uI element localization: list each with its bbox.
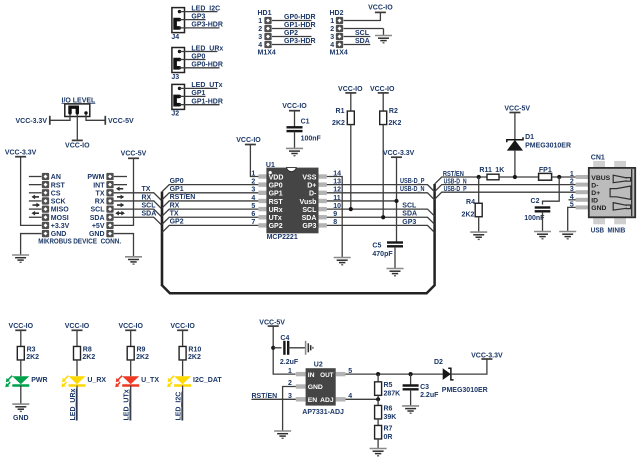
svg-text:SCL: SCL xyxy=(355,30,370,37)
svg-text:SDA: SDA xyxy=(142,211,157,218)
DEVICE CONN pin PWM xyxy=(114,176,127,178)
svg-text:R2: R2 xyxy=(389,108,398,115)
svg-text:GND: GND xyxy=(308,384,323,391)
power VCC-3.3V after D2 xyxy=(481,358,492,360)
wire SDA from U1 xyxy=(327,217,435,224)
svg-text:VCC-3.3V: VCC-3.3V xyxy=(5,149,37,156)
wire R11 to FP1 xyxy=(499,176,539,178)
LED I2C_DAT xyxy=(167,376,191,388)
wire U_RX LED down xyxy=(76,386,78,421)
arrow TX xyxy=(117,195,124,200)
svg-text:TX: TX xyxy=(96,190,105,197)
wire TX bus to U1 pin 6 xyxy=(162,217,258,224)
svg-text:VCC-3.3V: VCC-3.3V xyxy=(471,353,503,360)
wire R10 top xyxy=(182,330,184,346)
CN1 ID stub xyxy=(569,199,576,201)
svg-text:J3: J3 xyxy=(171,74,179,81)
svg-text:D-: D- xyxy=(591,182,598,189)
svg-text:D+: D+ xyxy=(307,182,316,189)
svg-text:+5V: +5V xyxy=(92,223,105,230)
wire Vusb xyxy=(327,200,397,202)
wire RST/EN from bus to R11 xyxy=(435,177,487,184)
svg-text:VSS: VSS xyxy=(302,174,316,181)
resistor R10 xyxy=(179,346,186,360)
wire SCL from U1 xyxy=(327,209,435,216)
svg-text:R6: R6 xyxy=(384,406,393,413)
svg-text:R9: R9 xyxy=(137,346,146,353)
resistor R5 xyxy=(377,374,379,382)
power VCC-IO at HD2 xyxy=(375,11,386,13)
DEVICE CONN pin +5V xyxy=(106,222,113,229)
svg-text:AP7331-ADJ: AP7331-ADJ xyxy=(302,409,344,416)
svg-text:GP3: GP3 xyxy=(402,219,416,226)
wire U2 OUT xyxy=(346,373,443,375)
svg-text:2K2: 2K2 xyxy=(462,212,475,219)
svg-text:RST/EN: RST/EN xyxy=(443,171,464,178)
power terminal VCC-3.3V left xyxy=(49,116,51,125)
DEVICE CONN pin RX xyxy=(106,197,113,204)
wire R10 to LED xyxy=(182,360,184,376)
svg-text:RST/EN: RST/EN xyxy=(252,393,278,400)
wire VCC-3.3V down to Vusb and C5 xyxy=(396,157,398,241)
wire GP0 xyxy=(180,59,206,61)
svg-text:4: 4 xyxy=(258,42,262,49)
svg-text:VCC-IO: VCC-IO xyxy=(282,103,307,110)
wire VCC-IO to U1 VDD xyxy=(250,145,258,177)
svg-text:TX: TX xyxy=(142,186,151,193)
svg-text:2: 2 xyxy=(258,26,262,33)
wire device conn GND xyxy=(114,234,134,257)
junction C4 xyxy=(271,346,275,350)
capacitor C3 xyxy=(410,374,412,385)
wire PWR LED to ground xyxy=(20,386,22,405)
svg-text:2K2: 2K2 xyxy=(389,120,402,127)
wire USB-D_N from U1 D- xyxy=(327,193,435,200)
ground below C1 xyxy=(286,148,303,155)
wire GP1 xyxy=(180,95,206,97)
power VCC-IO below I/O LEVEL xyxy=(72,139,83,141)
svg-text:D+: D+ xyxy=(591,190,600,197)
svg-text:R1: R1 xyxy=(336,108,345,115)
svg-text:VCC-IO: VCC-IO xyxy=(236,137,261,144)
wire USB-D_N bus to CN1 D- xyxy=(435,185,576,192)
MIKROBUS pin MISO xyxy=(29,208,42,210)
svg-text:R8: R8 xyxy=(83,346,92,353)
rotated ground at C4 xyxy=(306,341,313,355)
svg-text:3: 3 xyxy=(258,34,262,41)
wire R9 to LED xyxy=(130,360,132,376)
MIKROBUS pin CS xyxy=(29,192,42,194)
power terminal VCC-5V right xyxy=(104,116,106,125)
svg-text:USB-D_P: USB-D_P xyxy=(400,178,425,185)
svg-text:C1: C1 xyxy=(301,119,310,126)
svg-text:1K: 1K xyxy=(495,167,504,174)
svg-text:RST/EN: RST/EN xyxy=(170,194,196,201)
svg-text:LED_URx: LED_URx xyxy=(191,45,223,52)
svg-text:VCC-5V: VCC-5V xyxy=(121,151,147,158)
wire C2 to ground xyxy=(542,212,544,232)
svg-text:3: 3 xyxy=(330,34,334,41)
svg-text:5: 5 xyxy=(251,203,255,210)
svg-text:4: 4 xyxy=(330,42,334,49)
wire C5 to ground xyxy=(394,247,396,269)
svg-text:RX: RX xyxy=(170,202,180,209)
svg-text:2: 2 xyxy=(330,26,334,33)
wire GP0-HDR xyxy=(180,67,220,69)
ground at HD2 pin 2 xyxy=(375,36,392,43)
wire R3 top xyxy=(20,330,22,346)
junction R4 xyxy=(477,175,481,179)
svg-text:1: 1 xyxy=(258,18,262,25)
svg-text:2: 2 xyxy=(251,178,255,185)
svg-text:1: 1 xyxy=(570,171,574,178)
svg-text:USB MINIB: USB MINIB xyxy=(591,225,626,234)
svg-text:LED_URx: LED_URx xyxy=(70,388,77,420)
wire TX to bus xyxy=(114,193,162,201)
svg-text:U2: U2 xyxy=(314,362,323,369)
svg-text:GP3-HDR: GP3-HDR xyxy=(284,38,316,45)
bus trunk left vertical xyxy=(161,192,164,286)
arrow INT xyxy=(116,186,123,191)
capacitor C2 xyxy=(535,208,551,212)
DEVICE CONN pin SDA xyxy=(106,214,113,221)
wire I2C_DAT LED down xyxy=(182,386,184,421)
svg-text:SCL: SCL xyxy=(91,207,106,214)
svg-text:VCC-IO: VCC-IO xyxy=(65,142,90,149)
svg-text:C5: C5 xyxy=(372,243,381,250)
svg-text:VCC-IO: VCC-IO xyxy=(118,323,143,330)
svg-text:SDA: SDA xyxy=(355,38,370,45)
wire GP1 bus to U1 pin 3 xyxy=(162,193,258,200)
wire I/O LEVEL pin1 to VCC-3.3V xyxy=(50,114,70,120)
svg-text:R5: R5 xyxy=(384,382,393,389)
svg-text:FP1: FP1 xyxy=(539,167,552,174)
junction ADJ xyxy=(376,397,380,401)
svg-text:I2C_DAT: I2C_DAT xyxy=(193,377,222,384)
resistor R8 xyxy=(74,346,81,360)
svg-text:287K: 287K xyxy=(384,390,401,397)
svg-text:R4: R4 xyxy=(466,199,475,206)
LED U_RX xyxy=(62,376,86,388)
resistor R9 xyxy=(127,346,134,360)
wire D2 to VCC-3.3V xyxy=(451,359,487,374)
wire GP3 xyxy=(180,19,206,21)
svg-text:GP1-HDR: GP1-HDR xyxy=(191,99,223,106)
ground below U2 GND xyxy=(274,431,291,438)
svg-text:TX: TX xyxy=(170,210,179,217)
wire D1 to VBUS line xyxy=(514,151,516,177)
wire GP2 bus to U1 pin 7 xyxy=(162,225,258,232)
svg-text:HD1: HD1 xyxy=(258,10,272,17)
wire VCC-5V down to U2 IN xyxy=(273,326,295,374)
wire R2 to SDA xyxy=(382,125,384,218)
svg-text:DEVICE CONN.: DEVICE CONN. xyxy=(73,237,121,246)
MIKROBUS pin MOSI xyxy=(29,216,42,218)
svg-text:GP3-HDR: GP3-HDR xyxy=(191,22,223,29)
svg-text:RST: RST xyxy=(269,199,284,206)
wire U2 pin2 stub xyxy=(283,387,296,432)
diode D2 PMEG3010ER xyxy=(443,368,451,380)
junction Vusb xyxy=(394,199,398,203)
wire mikrobus GND xyxy=(21,234,42,255)
wire LED_I2C xyxy=(180,11,218,13)
jumper J2 body xyxy=(172,84,185,109)
wire R4 to ground xyxy=(478,217,480,232)
junction C2 xyxy=(557,175,561,179)
DEVICE CONN pin TX xyxy=(106,189,113,196)
wire VCC-3.3V to +3.3V pin xyxy=(21,157,42,226)
svg-text:2K2: 2K2 xyxy=(82,354,95,361)
svg-text:Vusb: Vusb xyxy=(300,199,317,206)
svg-text:SDA: SDA xyxy=(302,215,317,222)
wire R8 to LED xyxy=(76,360,78,376)
svg-text:GP1: GP1 xyxy=(191,90,205,97)
svg-text:PMEG3010ER: PMEG3010ER xyxy=(525,142,571,149)
svg-text:MIKROBUS: MIKROBUS xyxy=(38,237,72,246)
ground below mikrobus xyxy=(12,255,29,262)
wire U1 VSS to ground xyxy=(327,177,342,258)
arrow RX xyxy=(117,203,124,208)
wire GP1-HDR xyxy=(180,104,220,106)
svg-text:GP0-HDR: GP0-HDR xyxy=(191,62,223,69)
MIKROBUS pin GND xyxy=(42,230,49,237)
wire USB-D_P from U1 D+ xyxy=(327,185,435,192)
ferrite FP1 xyxy=(539,173,552,180)
ground below VSS xyxy=(334,258,351,265)
svg-text:3: 3 xyxy=(570,186,574,193)
ground below R7 xyxy=(370,449,387,456)
svg-text:GP1-HDR: GP1-HDR xyxy=(284,22,316,29)
svg-text:LED_UTx: LED_UTx xyxy=(124,389,131,420)
svg-text:VCC-IO: VCC-IO xyxy=(368,5,393,12)
svg-text:GP2: GP2 xyxy=(170,219,184,226)
svg-text:1: 1 xyxy=(288,368,292,375)
svg-text:INT: INT xyxy=(93,182,105,189)
capacitor C1 xyxy=(287,127,303,131)
svg-text:SCK: SCK xyxy=(51,199,66,206)
svg-text:2K2: 2K2 xyxy=(26,354,39,361)
resistor R1 xyxy=(350,93,352,111)
LED PWR xyxy=(5,376,29,388)
svg-text:VCC-3.3V: VCC-3.3V xyxy=(15,118,47,125)
svg-text:GP3: GP3 xyxy=(302,223,316,230)
svg-text:0R: 0R xyxy=(384,434,393,441)
junction C3 top xyxy=(409,372,413,376)
arrow SDA bidir xyxy=(115,211,125,216)
svg-text:SDA: SDA xyxy=(402,211,417,218)
svg-text:SDA: SDA xyxy=(90,215,105,222)
svg-text:2K2: 2K2 xyxy=(332,120,345,127)
resistor R11 1K xyxy=(487,174,499,180)
svg-text:100nF: 100nF xyxy=(301,136,322,143)
junction R5 top xyxy=(376,372,380,376)
svg-text:UTx: UTx xyxy=(269,215,282,222)
LED U_TX xyxy=(115,376,139,388)
wire C4 left xyxy=(273,347,281,349)
svg-text:GND: GND xyxy=(13,415,29,422)
ground below C3 xyxy=(402,406,419,413)
wire R1 to SCL xyxy=(350,125,352,210)
svg-text:LED_UTx: LED_UTx xyxy=(191,82,222,89)
ground below R4 xyxy=(470,232,487,239)
svg-text:2.2uF: 2.2uF xyxy=(420,392,439,399)
svg-text:2.2uF: 2.2uF xyxy=(280,359,299,366)
svg-text:ADJ: ADJ xyxy=(320,397,334,404)
svg-text:1: 1 xyxy=(330,18,334,25)
svg-text:VCC-IO: VCC-IO xyxy=(170,323,195,330)
svg-text:GP2: GP2 xyxy=(269,223,283,230)
MIKROBUS pin SCK xyxy=(29,200,42,202)
svg-text:GP1: GP1 xyxy=(170,186,184,193)
wire USB-D_P bus to CN1 D+ xyxy=(435,192,576,199)
jumper J4 body xyxy=(172,8,185,33)
ground below CN1 GND xyxy=(559,232,576,239)
wire FP1 to CN1 VBUS xyxy=(552,176,576,178)
resistor R6 xyxy=(377,399,379,405)
svg-text:SCL: SCL xyxy=(142,203,157,210)
svg-text:D-: D- xyxy=(309,191,317,198)
wire SDA to bus xyxy=(114,217,162,225)
capacitor C4 xyxy=(284,341,288,355)
svg-text:ID: ID xyxy=(591,198,598,205)
svg-text:3: 3 xyxy=(251,187,255,194)
wire I/O LEVEL pin2 to VCC-IO xyxy=(76,114,78,140)
wire GP3 from U1 xyxy=(327,225,435,232)
svg-text:GP0-HDR: GP0-HDR xyxy=(284,14,316,21)
wire C1 xyxy=(294,111,296,127)
ground below PWR LED xyxy=(12,404,29,411)
svg-text:HD2: HD2 xyxy=(330,10,344,17)
svg-text:IN: IN xyxy=(308,372,315,379)
wire RST/EN to U2 EN xyxy=(252,398,296,400)
ground below C5 xyxy=(387,269,404,276)
wire U_TX LED down xyxy=(130,386,132,421)
ground below device conn xyxy=(125,257,142,264)
junction R1-SCL xyxy=(349,207,353,211)
wire SCL to bus xyxy=(114,209,162,217)
svg-text:7: 7 xyxy=(251,219,255,226)
svg-text:R3: R3 xyxy=(27,346,36,353)
svg-text:GP0: GP0 xyxy=(269,182,283,189)
svg-text:OUT: OUT xyxy=(320,372,334,379)
svg-text:MISO: MISO xyxy=(51,207,69,214)
ground below C2 xyxy=(534,232,551,239)
wire R9 top xyxy=(130,330,132,346)
arrow SCK out xyxy=(33,203,41,208)
svg-text:C4: C4 xyxy=(280,335,289,342)
svg-text:U_RX: U_RX xyxy=(87,377,106,384)
svg-text:D1: D1 xyxy=(525,134,534,141)
junction R2-SDA xyxy=(381,215,385,219)
svg-text:GP0: GP0 xyxy=(191,53,205,60)
wire LED_URx xyxy=(180,51,218,53)
svg-text:LED_I2C: LED_I2C xyxy=(191,5,220,12)
svg-text:VBUS: VBUS xyxy=(591,175,610,182)
svg-text:SCL: SCL xyxy=(402,203,417,210)
wire R3 to LED xyxy=(20,360,22,376)
svg-text:SCL: SCL xyxy=(302,207,317,214)
svg-text:J4: J4 xyxy=(171,34,179,41)
svg-text:M1X4: M1X4 xyxy=(330,50,348,57)
jumper J3 body xyxy=(172,48,185,73)
wire C1 to gnd xyxy=(294,132,296,149)
svg-text:R7: R7 xyxy=(384,426,393,433)
svg-text:USB-D_P: USB-D_P xyxy=(444,186,467,193)
wire LED_UTx xyxy=(180,87,218,89)
junction D1 xyxy=(513,175,517,179)
svg-text:M1X4: M1X4 xyxy=(258,50,276,57)
svg-text:VCC-IO: VCC-IO xyxy=(9,323,34,330)
MIKROBUS pin RST xyxy=(29,184,42,186)
svg-text:D2: D2 xyxy=(434,359,443,366)
svg-text:PWM: PWM xyxy=(87,174,104,181)
MIKROBUS pin +3.3V xyxy=(42,222,49,229)
wire R5 to ADJ row xyxy=(377,395,379,399)
svg-text:J2: J2 xyxy=(171,111,179,118)
svg-text:URx: URx xyxy=(269,207,283,214)
wire RX bus to U1 pin 5 xyxy=(162,209,258,216)
wire R8 top xyxy=(76,330,78,346)
svg-text:C3: C3 xyxy=(420,384,429,391)
diode D1 PMEG3010ER xyxy=(514,113,516,141)
svg-text:CS: CS xyxy=(51,190,61,197)
capacitor C5 xyxy=(387,243,403,247)
wire GP0 bus to U1 pin 2 xyxy=(162,185,258,192)
svg-text:39K: 39K xyxy=(384,414,397,421)
svg-text:RST: RST xyxy=(51,182,66,189)
svg-text:2K2: 2K2 xyxy=(136,354,149,361)
resistor R4 xyxy=(478,177,480,203)
svg-text:CN1: CN1 xyxy=(591,155,605,162)
DEVICE CONN pin INT xyxy=(114,184,127,186)
svg-text:RX: RX xyxy=(95,199,105,206)
MIKROBUS pin AN xyxy=(29,176,42,178)
wire C4 to rotated ground xyxy=(288,347,305,349)
svg-text:4: 4 xyxy=(251,195,255,202)
wire RX to bus xyxy=(114,201,162,209)
wire RST/EN bus to U1 pin 4 xyxy=(162,201,258,208)
bus loop bottom xyxy=(162,184,435,293)
svg-text:GP2: GP2 xyxy=(284,30,298,37)
resistor R3 xyxy=(17,346,24,360)
svg-text:6: 6 xyxy=(251,211,255,218)
svg-text:LED_I2C: LED_I2C xyxy=(175,392,182,421)
resistor R2 xyxy=(382,93,384,111)
svg-text:GND: GND xyxy=(591,205,606,212)
wire C3 to ground xyxy=(410,390,412,406)
arrow CS in xyxy=(32,195,40,200)
wire ADJ xyxy=(346,398,379,400)
svg-text:USB-D_N: USB-D_N xyxy=(444,179,467,186)
svg-text:RX: RX xyxy=(142,194,152,201)
svg-text:+3.3V: +3.3V xyxy=(51,223,70,230)
wire I/O LEVEL pin3 to VCC-5V xyxy=(86,114,105,120)
svg-text:PMEG3010ER: PMEG3010ER xyxy=(442,387,488,394)
svg-text:VCC-5V: VCC-5V xyxy=(504,106,530,113)
DEVICE CONN pin SCL xyxy=(106,205,113,212)
svg-text:VCC-5V: VCC-5V xyxy=(108,118,134,125)
svg-text:C2: C2 xyxy=(531,198,540,205)
arrow MISO in xyxy=(32,211,40,216)
svg-text:GP0: GP0 xyxy=(170,178,184,185)
svg-text:R11: R11 xyxy=(479,167,492,174)
svg-text:U_TX: U_TX xyxy=(141,377,159,384)
svg-text:MOSI: MOSI xyxy=(51,215,69,222)
wire VCC-5V to +5V pin xyxy=(114,158,134,225)
svg-text:USB-D_N: USB-D_N xyxy=(400,186,425,193)
wire R7 to ground xyxy=(377,439,379,449)
svg-text:2K2: 2K2 xyxy=(188,354,201,361)
